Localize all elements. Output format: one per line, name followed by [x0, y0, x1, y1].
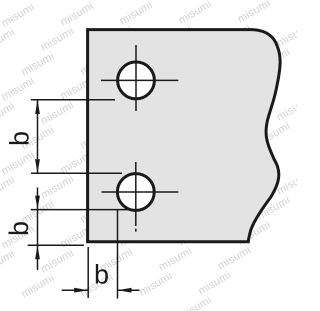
- extension line L4 (plate bottom): [28, 244, 84, 246]
- dimension line b1: [37, 100, 39, 173]
- dimension line b3 right tail: [118, 289, 140, 291]
- centerline H1 horizontal: [101, 79, 178, 81]
- dimension line b2 through: [37, 210, 39, 246]
- arrowhead left at V2: [118, 288, 132, 293]
- arrowhead up at L4: [35, 245, 40, 259]
- extension line L2 (hole2 top tangent): [31, 172, 122, 174]
- svg-text:b: b: [94, 260, 109, 290]
- plate outline: [88, 30, 281, 242]
- dimension line b2 upper shaft: [37, 188, 39, 210]
- extension line L1 (hole1 bottom tangent): [31, 99, 115, 101]
- arrowhead right at V1: [74, 288, 88, 293]
- arrowhead down at L2: [35, 159, 40, 173]
- plate fill: [88, 30, 281, 242]
- centerline H2 horizontal: [102, 191, 179, 193]
- centerline H2 vertical: [135, 162, 137, 226]
- dimension line b3 left tail: [62, 289, 88, 291]
- hole H1: [118, 62, 155, 99]
- hole H1 fill: [118, 62, 155, 99]
- hole H2: [117, 174, 154, 211]
- centerline H1 vertical: [135, 45, 137, 111]
- svg-text:b: b: [4, 221, 34, 236]
- extension line L3 (hole2 bottom tangent): [31, 209, 131, 211]
- extension line V1 (plate left edge): [87, 247, 89, 298]
- dimension line b2 lower shaft: [37, 246, 39, 271]
- arrowhead down at L3: [35, 196, 40, 210]
- hole H2 fill: [117, 174, 154, 211]
- extension line V2 (hole2 left tangent): [117, 209, 119, 299]
- centerline H2 vertical dash: [135, 229, 137, 232]
- arrowhead up at L1: [35, 100, 40, 114]
- svg-text:b: b: [5, 131, 35, 146]
